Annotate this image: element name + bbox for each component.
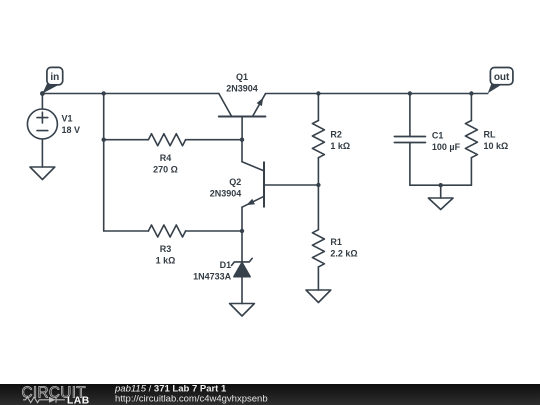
label C1 value <box>432 131 461 153</box>
transistor Q1 (NPN, rotated, base down) <box>219 94 266 140</box>
node: R3 / Q2 emitter / D1 <box>240 229 244 233</box>
svg-text:LAB: LAB <box>67 396 90 405</box>
resistor R3 <box>104 225 242 237</box>
node: Q2 base / R2 / R1 <box>316 183 320 187</box>
CircuitLab logo resistor-diode glyph <box>23 397 65 403</box>
node: rail / R2 <box>316 91 320 95</box>
node: rail / left bus <box>102 91 106 95</box>
resistor RL <box>465 94 477 186</box>
resistor R2 <box>312 94 324 186</box>
footer title text <box>114 384 268 405</box>
label R3 value <box>156 244 176 266</box>
Q2 emitter arrow <box>246 199 255 205</box>
wire: bottom wire C1 to RL <box>410 184 472 186</box>
footer bar <box>0 384 540 405</box>
Q1 emitter arrow <box>257 98 264 106</box>
label R2 value <box>330 130 350 152</box>
svg-text:http://circuitlab.com/c4w4gvhx: http://circuitlab.com/c4w4gvhxpsenb <box>115 393 268 404</box>
capacitor C1 <box>394 94 425 186</box>
label D1 value <box>193 260 232 282</box>
flag "out" <box>488 68 513 94</box>
node: in flag <box>40 91 45 96</box>
ground (D1) <box>230 304 255 317</box>
ground (C1/RL) <box>428 198 453 210</box>
ground (V1) <box>30 167 55 180</box>
ground (R1) <box>306 290 331 303</box>
label RL value <box>484 130 509 152</box>
wire: main top rail from Q1 emitter to out flag <box>265 93 487 95</box>
transistor Q2 (NPN, mirrored, base right) <box>242 140 318 231</box>
node: rail / RL <box>469 91 473 95</box>
junction node dots <box>40 91 474 233</box>
flag "in" <box>42 67 62 93</box>
label Q1 value <box>226 72 258 94</box>
wire: main top rail from input node to Q1 collector <box>42 93 218 95</box>
CircuitLab logo wordmark <box>22 384 90 405</box>
label R4 value <box>153 153 178 175</box>
wire: left vertical bus from rail to R3 <box>103 94 105 232</box>
zener diode D1 <box>232 231 253 304</box>
label R1 value <box>330 237 357 259</box>
resistor R4 <box>104 134 242 146</box>
node: R4 left <box>102 138 106 142</box>
node: C1 / RL / ground <box>439 183 443 187</box>
resistor R1 <box>312 185 324 290</box>
node: rail / C1 <box>408 91 412 95</box>
voltage source V1 <box>27 94 57 168</box>
label Q2 value <box>210 177 242 199</box>
wire: ground stem <box>440 185 442 198</box>
node: Q1 base / R4 / Q2 collector <box>240 138 244 142</box>
label V1 value <box>62 114 81 136</box>
